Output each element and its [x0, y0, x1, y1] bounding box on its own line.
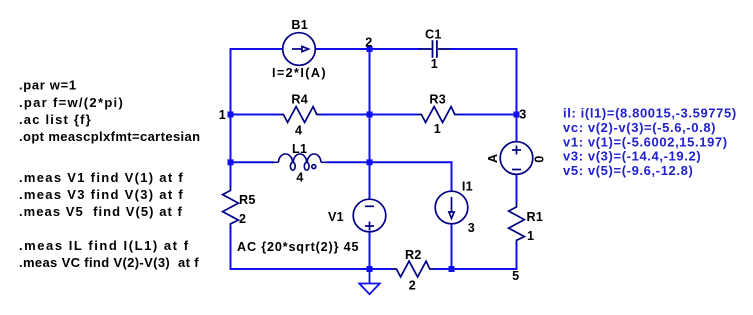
junction middle rail1: [367, 112, 373, 118]
wire rail1 node1 to R4: [231, 114, 280, 116]
svg-text:.ac list {f}: .ac list {f}: [19, 112, 92, 127]
voltage source A (ammeter): [500, 142, 533, 175]
svg-text:v3: v(3)=(-14.4,-19.2): v3: v(3)=(-14.4,-19.2): [563, 149, 701, 164]
spice directive text block 1: [19, 78, 200, 145]
wire rail1 R3 to node3: [459, 114, 517, 116]
ground: [359, 269, 379, 294]
source B1: [283, 33, 316, 66]
svg-text:5: 5: [512, 269, 519, 283]
capacitor C1: [419, 40, 451, 58]
wire top rail B1 to C1: [315, 48, 420, 50]
resistor R3: [417, 107, 459, 123]
svg-text:1: 1: [219, 108, 226, 122]
svg-text:R4: R4: [291, 92, 308, 106]
resistor R1: [509, 203, 525, 245]
svg-text:R3: R3: [429, 93, 446, 107]
svg-text:.meas VC find V(2)-V(3) at f: .meas VC find V(2)-V(3) at f: [19, 255, 199, 270]
wire rail2 L1 to I1 corner: [327, 161, 453, 163]
wire right rail A to R1: [516, 174, 518, 204]
svg-text:.meas V1 find V(1) at f: .meas V1 find V(1) at f: [19, 170, 184, 185]
svg-text:.par f=w/(2*pi): .par f=w/(2*pi): [19, 95, 124, 110]
svg-text:C1: C1: [425, 28, 442, 42]
svg-text:il: i(l1)=(8.80015,-3.59775): il: i(l1)=(8.80015,-3.59775): [563, 106, 737, 121]
wire right rail node3: [516, 48, 518, 143]
junction node 1: [228, 112, 234, 118]
spice measurement directives block 2: [19, 170, 184, 219]
wire bottom rail left: [230, 268, 393, 270]
svg-text:4: 4: [295, 124, 302, 138]
junction node 2: [367, 46, 373, 52]
svg-text:v1: v(1)=(-5.6002,15.197): v1: v(1)=(-5.6002,15.197): [563, 134, 728, 149]
svg-text:.meas V3 find V(3) at f: .meas V3 find V(3) at f: [19, 187, 184, 202]
wire right rail R1 to corner: [516, 243, 518, 270]
svg-text:I1: I1: [462, 179, 473, 193]
svg-text:AC {20*sqrt(2)} 45: AC {20*sqrt(2)} 45: [237, 240, 359, 254]
svg-text:1: 1: [527, 229, 534, 243]
junction middle rail2: [367, 159, 373, 165]
svg-text:R2: R2: [405, 248, 422, 262]
svg-text:.meas IL find I(L1) at f: .meas IL find I(L1) at f: [19, 238, 190, 253]
wire left rail lower: [230, 227, 232, 270]
svg-text:R1: R1: [527, 210, 544, 224]
wire rail1 R4 to R3: [321, 114, 417, 116]
junction node 3: [514, 112, 520, 118]
wire rail2 left to L1: [231, 161, 274, 163]
wire bottom rail R2 to right corner: [434, 268, 518, 270]
wire left rail: [230, 48, 232, 187]
svg-text:1: 1: [434, 122, 441, 136]
svg-text:2: 2: [365, 36, 372, 50]
svg-text:A: A: [486, 154, 500, 163]
svg-text:v5: v(5)=(-9.6,-12.8): v5: v(5)=(-9.6,-12.8): [563, 163, 693, 178]
voltage source V1: [353, 199, 386, 232]
measurement results text (blue): [563, 106, 737, 178]
svg-text:R5: R5: [239, 193, 256, 207]
wire top rail left: [230, 48, 284, 50]
junction ground node: [367, 266, 373, 272]
svg-text:L1: L1: [292, 142, 307, 156]
wire middle rail below V1: [369, 232, 371, 271]
wire I1 bottom drop: [451, 223, 453, 270]
svg-text:I=2*I(A): I=2*I(A): [272, 66, 327, 80]
svg-text:0: 0: [533, 156, 547, 163]
svg-text:.meas V5 find V(5) at f: .meas V5 find V(5) at f: [19, 204, 183, 219]
svg-text:2: 2: [239, 212, 246, 226]
wire middle rail node2 down: [369, 49, 371, 200]
junction left rail2: [228, 159, 234, 165]
inductor L1: [272, 154, 327, 170]
svg-text:B1: B1: [291, 18, 308, 32]
resistor R5: [223, 186, 239, 228]
svg-text:V1: V1: [328, 210, 344, 224]
svg-text:.par w=1: .par w=1: [19, 78, 77, 93]
spice measurement directives block 3: [19, 238, 199, 270]
svg-text:3: 3: [519, 107, 526, 121]
junction I1 bottom: [449, 266, 455, 272]
wire I1 top drop: [451, 161, 453, 192]
svg-text:1: 1: [431, 57, 438, 71]
wire top rail C1 to right corner: [450, 48, 518, 50]
svg-text:.opt meascplxfmt=cartesian: .opt meascplxfmt=cartesian: [19, 129, 200, 144]
current source I1: [435, 191, 468, 224]
svg-text:vc: v(2)-v(3)=(-5.6,-0.8): vc: v(2)-v(3)=(-5.6,-0.8): [563, 120, 716, 135]
svg-text:2: 2: [409, 279, 416, 293]
resistor R4: [279, 107, 321, 123]
svg-text:4: 4: [296, 170, 303, 184]
resistor R2: [392, 261, 434, 277]
svg-text:3: 3: [468, 221, 475, 235]
